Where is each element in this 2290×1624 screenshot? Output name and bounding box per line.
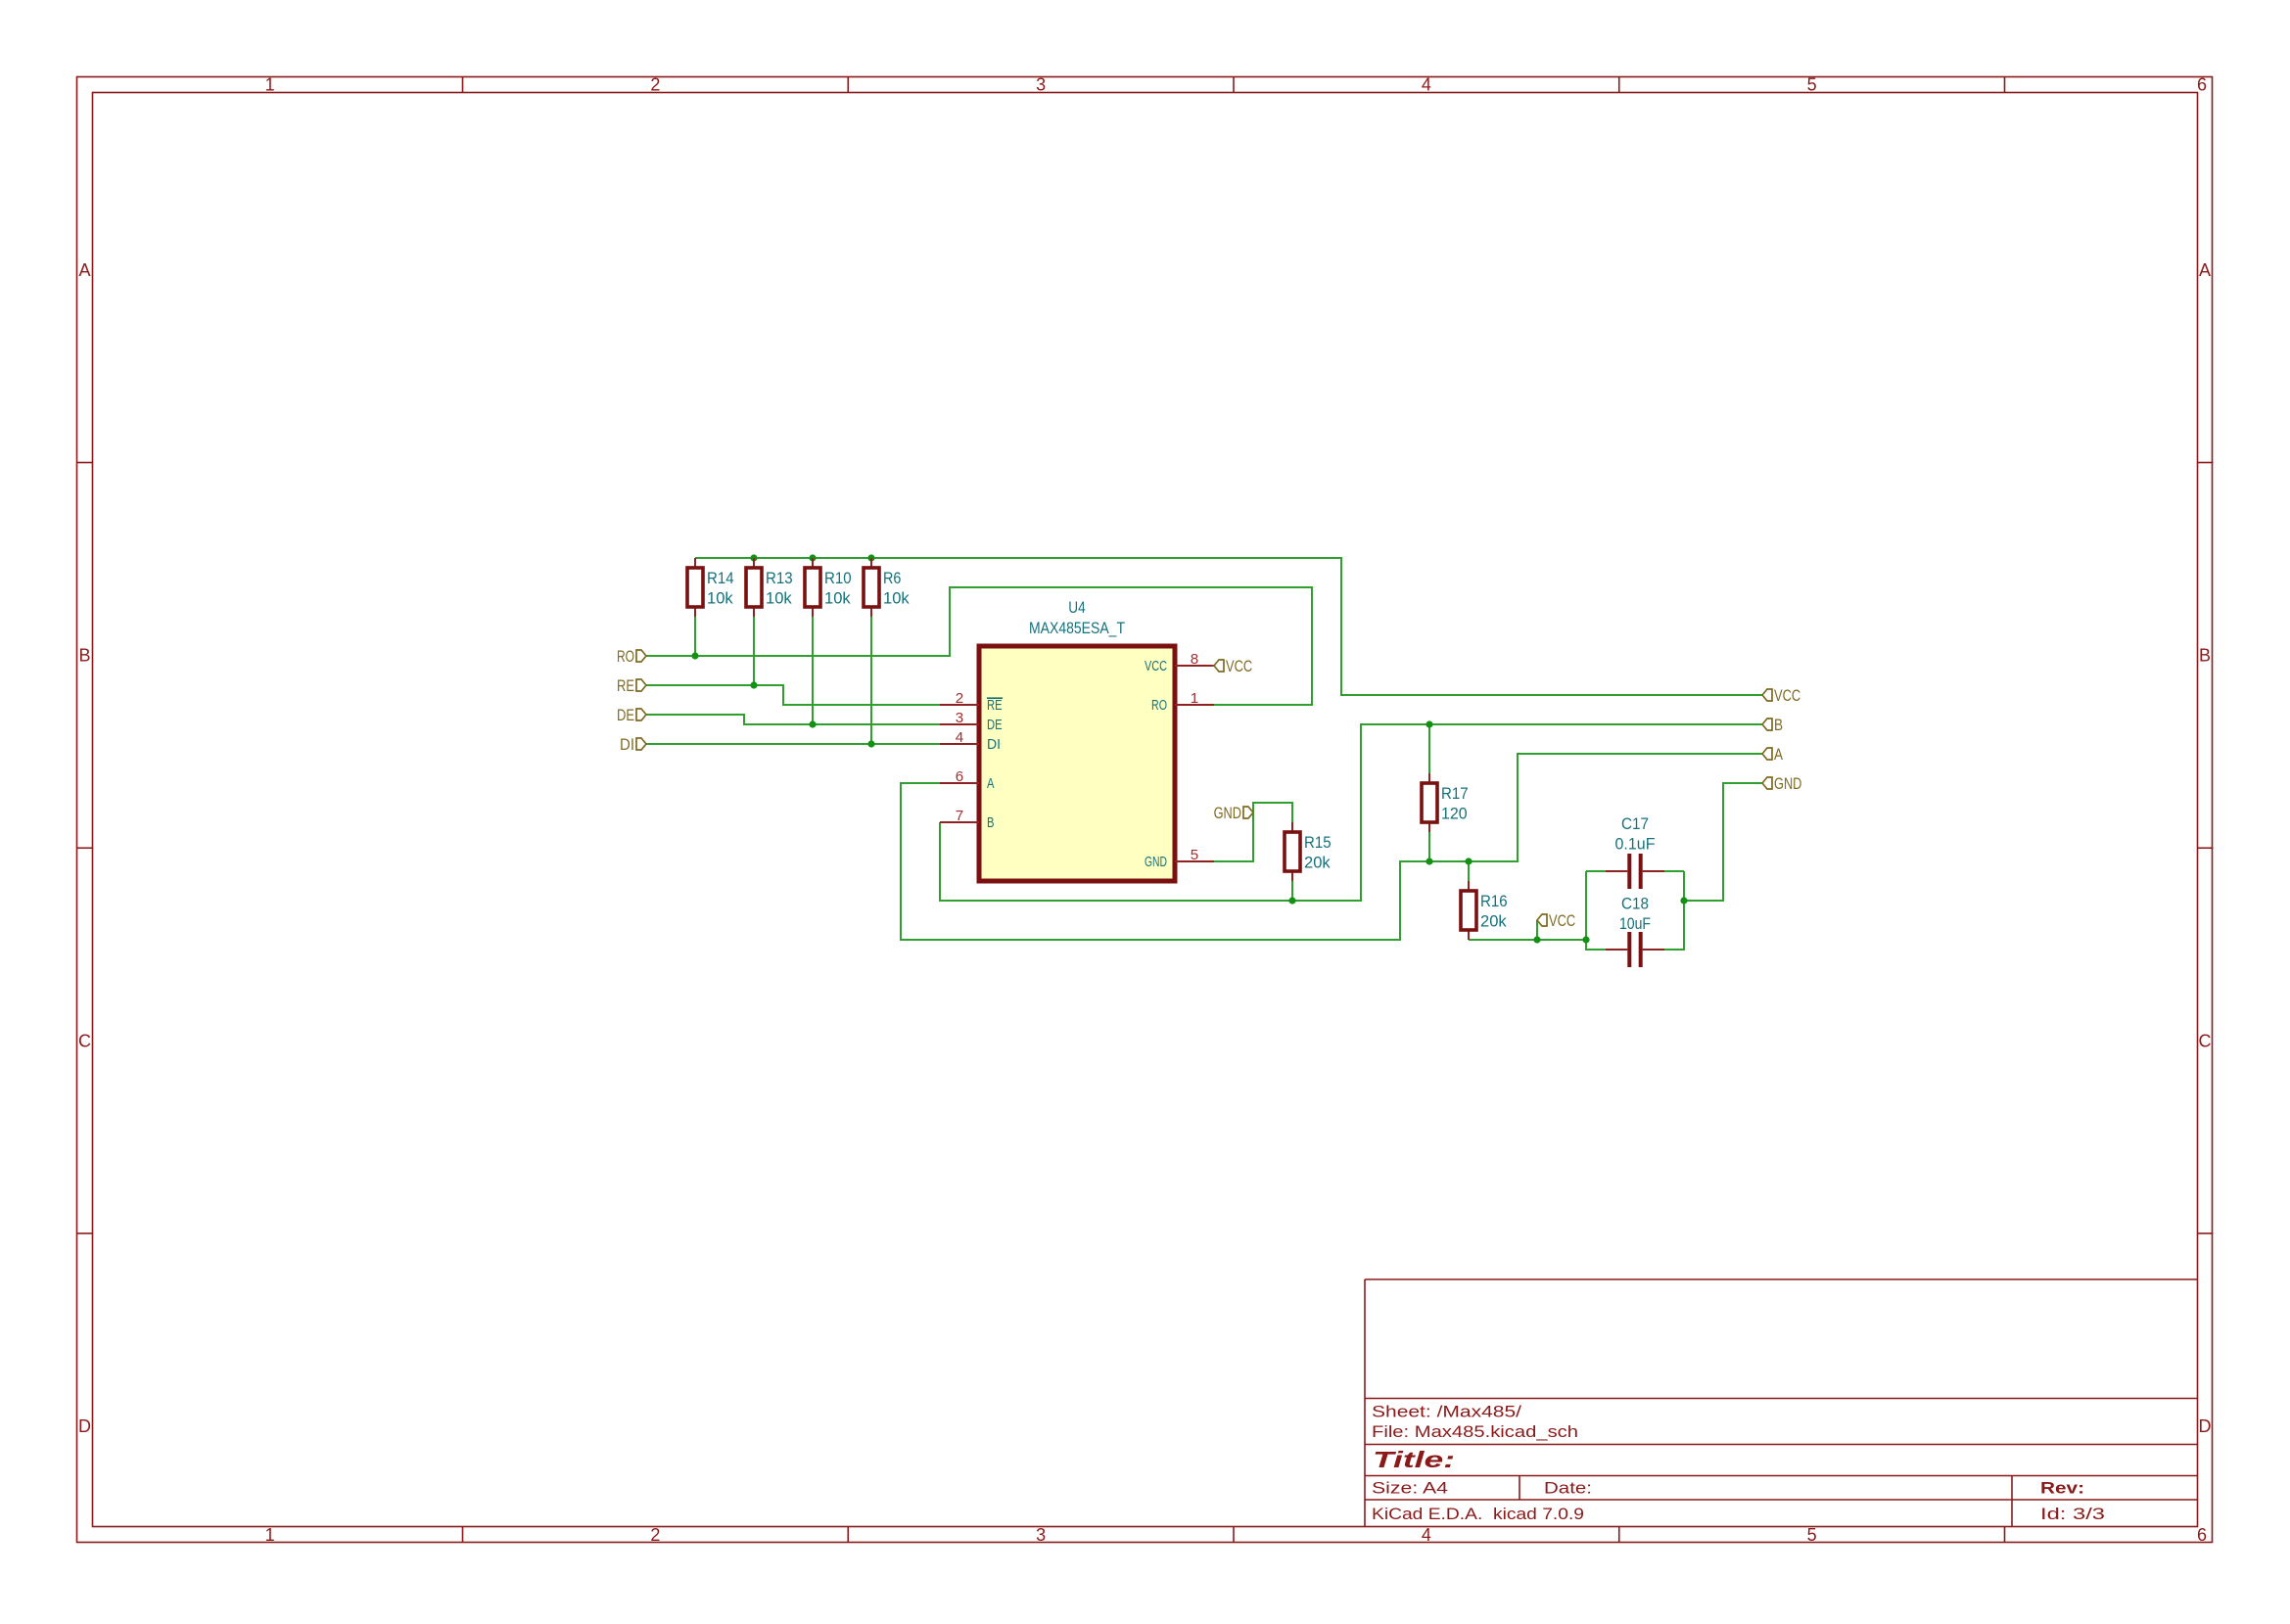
wire GND net: pin 5 to R15 top — [1214, 803, 1292, 861]
svg-text:R14: R14 — [707, 569, 734, 587]
svg-text:File: Max485.kicad_sch: File: Max485.kicad_sch — [1372, 1422, 1578, 1441]
resistor R6 10k — [864, 558, 910, 617]
wire DE net: DE label to pin 3 — [646, 715, 940, 724]
junction DI/R6 — [867, 740, 874, 747]
wire VCC label stub — [1536, 920, 1538, 940]
junction RE/R13 — [750, 681, 757, 688]
svg-text:10k: 10k — [707, 588, 733, 607]
svg-text:VCC: VCC — [1226, 657, 1252, 675]
svg-text:D: D — [2199, 1416, 2212, 1436]
hierarchical label DI — [620, 735, 646, 754]
svg-text:C: C — [78, 1031, 91, 1050]
pin 1 RO (right) — [1151, 690, 1214, 714]
title block frame — [1365, 1279, 2198, 1527]
hierarchical label DE — [617, 706, 646, 724]
svg-text:U4: U4 — [1068, 598, 1085, 617]
svg-text:R16: R16 — [1480, 892, 1508, 910]
grid row tick right 1 — [2198, 462, 2214, 464]
grid column tick top 4 — [1618, 77, 1620, 93]
pin 8 VCC (right) — [1145, 651, 1214, 674]
svg-text:B: B — [78, 646, 90, 666]
hierarchical label RO — [617, 647, 646, 666]
svg-text:8: 8 — [1191, 651, 1198, 668]
grid column tick bottom 2 — [847, 1527, 849, 1543]
svg-text:4: 4 — [1422, 75, 1431, 95]
pin 3 DE (left) — [940, 710, 1003, 733]
svg-text:RO: RO — [1151, 697, 1167, 714]
grid row tick right 2 — [2198, 847, 2214, 849]
svg-text:Rev:: Rev: — [2040, 1478, 2084, 1497]
svg-text:A: A — [1774, 745, 1784, 764]
wire R14 bottom to RO net — [694, 617, 696, 656]
junction R16/GND-net — [1465, 858, 1472, 864]
svg-text:2: 2 — [956, 690, 963, 707]
svg-text:DE: DE — [987, 717, 1003, 733]
junction GND/cap box — [1680, 897, 1687, 904]
grid column tick bottom 1 — [462, 1527, 464, 1543]
svg-text:2: 2 — [650, 75, 660, 95]
svg-text:1: 1 — [265, 75, 275, 95]
svg-text:10k: 10k — [883, 588, 910, 607]
svg-text:GND: GND — [1214, 804, 1241, 822]
svg-text:0.1uF: 0.1uF — [1615, 834, 1656, 853]
svg-text:C18: C18 — [1621, 894, 1649, 912]
svg-text:R13: R13 — [766, 569, 793, 587]
wire R16 top — [1468, 861, 1470, 881]
capacitor C17 0.1uF — [1606, 854, 1664, 889]
wire VCC net: R16 bottom to cap box — [1469, 939, 1586, 941]
grid column tick bottom 5 — [2004, 1527, 2006, 1543]
junction R15/B-net — [1288, 897, 1295, 904]
wire cap box left side — [1586, 871, 1606, 950]
svg-text:B: B — [1774, 716, 1783, 734]
svg-text:DE: DE — [617, 706, 634, 724]
svg-text:D: D — [78, 1416, 91, 1436]
resistor R14 10k — [687, 558, 734, 617]
svg-text:A: A — [2199, 260, 2211, 280]
svg-text:RE: RE — [617, 676, 634, 695]
svg-text:MAX485ESA_T: MAX485ESA_T — [1029, 619, 1125, 637]
svg-text:5: 5 — [1191, 847, 1198, 863]
hierarchical label RE — [617, 676, 646, 695]
svg-text:10k: 10k — [824, 588, 851, 607]
grid column tick bottom 3 — [1233, 1527, 1235, 1543]
svg-text:1: 1 — [265, 1525, 275, 1545]
resistor R13 10k — [746, 558, 793, 617]
svg-text:R6: R6 — [883, 569, 901, 587]
wire B net: pin 7 to B label — [940, 724, 1762, 901]
svg-text:C: C — [2199, 1031, 2212, 1050]
wire R10 bottom to DE net — [812, 617, 814, 724]
svg-text:A: A — [987, 775, 995, 792]
svg-text:5: 5 — [1807, 75, 1817, 95]
pin 6 A (left) — [940, 768, 995, 792]
svg-text:3: 3 — [956, 710, 963, 726]
svg-text:6: 6 — [2197, 1525, 2207, 1545]
wire VCC net: resistor bus to VCC label — [695, 558, 1762, 695]
grid column tick top 2 — [847, 77, 849, 93]
svg-text:1: 1 — [1191, 690, 1198, 707]
svg-text:B: B — [987, 814, 995, 831]
svg-text:DI: DI — [620, 735, 634, 754]
wire RE net: RE label to pin 2 — [646, 685, 940, 705]
svg-text:B: B — [2199, 646, 2211, 666]
svg-text:A: A — [78, 260, 90, 280]
wire A net: pin 6 to A label — [901, 754, 1762, 940]
svg-text:R17: R17 — [1441, 784, 1469, 803]
svg-text:Title:: Title: — [1373, 1447, 1455, 1472]
junction cap box — [1582, 936, 1589, 943]
grid column tick top 1 — [462, 77, 464, 93]
wire C17 left lead — [1586, 870, 1606, 872]
pin 2 RE (left) — [940, 690, 1003, 714]
junction bus/R13 — [750, 554, 757, 561]
svg-text:120: 120 — [1441, 804, 1468, 822]
grid column tick bottom 4 — [1618, 1527, 1620, 1543]
svg-text:KiCad E.D.A. kicad 7.0.9: KiCad E.D.A. kicad 7.0.9 — [1372, 1505, 1584, 1523]
IC U4 MAX485ESA_T body — [979, 646, 1175, 881]
hierarchical label A — [1762, 745, 1784, 764]
junction bus/R10 — [809, 554, 816, 561]
resistor R10 10k — [805, 558, 852, 617]
pin 7 B (left) — [940, 808, 995, 831]
hierarchical label GND right — [1762, 774, 1801, 793]
svg-text:7: 7 — [956, 808, 963, 824]
grid row tick left 3 — [77, 1232, 93, 1234]
wire cap box right side — [1664, 871, 1684, 950]
grid row tick left 1 — [77, 462, 93, 464]
pin 5 GND (right) — [1145, 847, 1214, 870]
hierarchical label B — [1762, 716, 1783, 734]
wire RO net: RO label to pin 1 — [646, 587, 1312, 705]
capacitor C18 10uF — [1606, 932, 1664, 967]
wire C17 right lead — [1664, 870, 1684, 872]
pin 4 DI (left) — [940, 729, 1001, 753]
grid row tick left 2 — [77, 847, 93, 849]
hierarchical label VCC at R16 — [1537, 911, 1575, 930]
hierarchical label VCC at pin 8 — [1214, 657, 1252, 675]
wire R6 bottom to DI net — [870, 617, 872, 744]
svg-text:R15: R15 — [1304, 833, 1332, 852]
svg-text:10k: 10k — [766, 588, 792, 607]
grid row tick right 3 — [2198, 1232, 2214, 1234]
wire R13 bottom to RE net — [753, 617, 755, 685]
grid column tick top 3 — [1233, 77, 1235, 93]
wire GND net to GND label — [1684, 783, 1762, 901]
svg-text:VCC: VCC — [1774, 686, 1800, 705]
wire R15 bottom to B-net row — [1291, 881, 1293, 901]
junction R17/B-net — [1425, 720, 1432, 727]
junction R17/GND-net — [1425, 858, 1432, 864]
svg-text:Id: 3/3: Id: 3/3 — [2040, 1505, 2105, 1523]
svg-text:6: 6 — [956, 768, 963, 785]
svg-text:20k: 20k — [1304, 853, 1331, 871]
svg-text:20k: 20k — [1480, 911, 1507, 930]
svg-text:3: 3 — [1036, 75, 1046, 95]
junction DE/R10 — [809, 720, 816, 727]
svg-text:C17: C17 — [1621, 814, 1649, 833]
svg-text:VCC: VCC — [1145, 658, 1167, 674]
svg-text:RO: RO — [617, 647, 634, 666]
svg-text:5: 5 — [1807, 1525, 1817, 1545]
hierarchical label GND at R15 — [1214, 804, 1253, 822]
svg-text:2: 2 — [650, 1525, 660, 1545]
svg-text:3: 3 — [1036, 1525, 1046, 1545]
svg-text:6: 6 — [2197, 75, 2207, 95]
svg-text:Size: A4: Size: A4 — [1372, 1478, 1448, 1497]
svg-text:DI: DI — [987, 736, 1001, 753]
svg-text:GND: GND — [1774, 774, 1801, 793]
resistor R17 120 — [1422, 773, 1469, 832]
wire R17 bottom to GND net — [1428, 832, 1430, 861]
grid column tick top 5 — [2004, 77, 2006, 93]
svg-text:Date:: Date: — [1544, 1478, 1592, 1497]
svg-text:R10: R10 — [824, 569, 852, 587]
svg-text:4: 4 — [956, 729, 963, 746]
svg-text:4: 4 — [1422, 1525, 1431, 1545]
svg-text:10uF: 10uF — [1619, 914, 1651, 933]
resistor R15 20k — [1285, 822, 1332, 881]
resistor R16 20k — [1461, 881, 1508, 940]
svg-text:GND: GND — [1145, 854, 1167, 870]
svg-text:RE: RE — [987, 697, 1003, 714]
svg-text:VCC: VCC — [1549, 911, 1575, 930]
junction bus/R6 — [867, 554, 874, 561]
hierarchical label VCC right — [1762, 686, 1800, 705]
svg-text:Sheet: /Max485/: Sheet: /Max485/ — [1372, 1402, 1521, 1420]
wire DI net: DI label to pin 4 — [646, 743, 940, 745]
junction VCC label — [1533, 936, 1540, 943]
wire R17 top to B net — [1428, 724, 1430, 773]
junction RO/R14 — [691, 652, 698, 659]
